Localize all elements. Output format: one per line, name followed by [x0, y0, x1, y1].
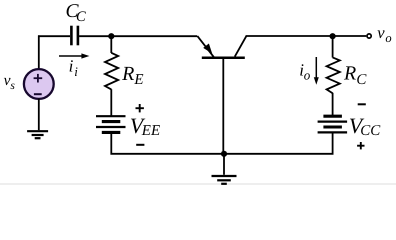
svg-text:EE: EE [141, 123, 160, 139]
battery V_CC plus sign [357, 142, 364, 149]
svg-text:R: R [121, 63, 134, 85]
battery V_CC minus sign [358, 103, 366, 105]
wire: junction to ground [223, 154, 225, 175]
transistor Q1 base bar [202, 56, 245, 59]
output terminal v_o [367, 34, 371, 38]
node dot at R_E top junction [108, 33, 114, 39]
label R_E [121, 63, 143, 88]
svg-text:R: R [343, 63, 356, 85]
wire: transistor base lead down to bottom rail [222, 59, 224, 154]
ground (below v_s) [27, 131, 48, 138]
wire: V_EE bottom stub and bottom rail to V_CC [111, 132, 332, 153]
label V_CC [349, 113, 381, 139]
node dot at bottom rail junction [221, 151, 227, 157]
voltage source v_s [24, 69, 54, 99]
label v_o [377, 23, 391, 45]
wire: top right horizontal from collector to output [246, 35, 367, 37]
label R_C [343, 63, 367, 88]
faint page rule [0, 183, 396, 185]
label i_o [299, 60, 311, 82]
ground (bottom center) [212, 176, 237, 184]
wire: from source bottom to ground [38, 99, 40, 131]
battery V_EE [96, 116, 126, 132]
resistor R_C [327, 57, 340, 93]
wire: R_C to battery V_CC [332, 93, 334, 116]
wire: R_C branch top [332, 36, 334, 57]
wire: R_E branch top [110, 36, 112, 53]
battery V_EE plus sign [136, 104, 144, 112]
svg-text:C: C [356, 72, 367, 88]
wire: left vertical from top wire down to source [38, 35, 40, 69]
label i_i [69, 57, 79, 80]
svg-text:C: C [76, 9, 86, 25]
svg-text:i: i [69, 57, 74, 76]
battery V_EE minus sign [136, 144, 144, 146]
capacitor C_C plates [71, 26, 78, 46]
label V_EE [130, 113, 160, 139]
label C_C [66, 1, 87, 25]
wire: top middle horizontal from capacitor to transistor emitter [79, 35, 197, 37]
svg-text:E: E [133, 72, 143, 88]
battery V_CC [318, 116, 348, 132]
wire: top left horizontal from source to capacitor [38, 35, 70, 37]
svg-text:v: v [377, 23, 385, 42]
node dot at R_C top junction [330, 33, 336, 39]
resistor R_E [105, 53, 118, 90]
svg-text:i: i [74, 64, 78, 79]
svg-text:o: o [304, 68, 311, 83]
svg-text:CC: CC [360, 123, 381, 139]
svg-text:o: o [385, 31, 391, 45]
transistor Q1 collector lead [235, 36, 247, 57]
svg-text:s: s [10, 80, 15, 92]
current arrow i_o [314, 57, 319, 85]
transistor Q1 emitter lead with arrow [197, 36, 214, 57]
current arrow i_i [59, 53, 89, 58]
label v_s [4, 72, 16, 92]
wire: R_E to battery V_EE [110, 89, 112, 116]
